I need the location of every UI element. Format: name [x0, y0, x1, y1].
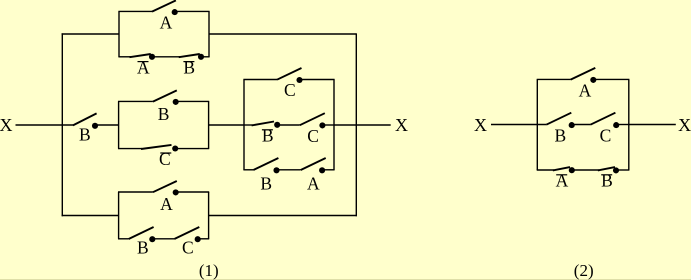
label B-bar: [601, 170, 613, 190]
wire box1 top right: [175, 10, 210, 12]
svg-text:B: B: [601, 170, 613, 190]
wire top branch exit: [209, 33, 356, 35]
box1 right edge: [208, 11, 210, 56]
switch B-bar (box5 bottom, closed): [598, 167, 619, 173]
switch C (box5 middle): [590, 113, 619, 128]
label C-bar: [159, 149, 171, 169]
wire box5 top right: [593, 78, 629, 80]
wire box3 middle right: [322, 124, 334, 126]
svg-text:B: B: [137, 238, 149, 258]
svg-text:B: B: [183, 57, 195, 77]
svg-text:B: B: [262, 126, 274, 146]
wire top branch: [62, 33, 119, 35]
svg-text:C: C: [159, 149, 171, 169]
wire output circuit 2: [629, 124, 676, 126]
svg-text:X: X: [395, 115, 408, 135]
switch C-bar (box2 bottom, closed): [141, 145, 178, 152]
wire box1 bottom middle: [152, 56, 180, 58]
switch C (box4 bottom): [174, 227, 200, 242]
svg-text:C: C: [307, 126, 319, 146]
box3 right edge: [333, 80, 335, 170]
svg-text:C: C: [284, 80, 296, 100]
box2 right edge: [208, 101, 210, 148]
wire box3 middle: [277, 124, 300, 126]
wire box4 bottom right: [198, 238, 210, 240]
wire box1 bottom left: [118, 56, 131, 58]
wire box3 bottom middle: [277, 169, 301, 171]
wire box2 bottom left: [118, 148, 142, 150]
wire box3 top right: [300, 79, 335, 81]
wire box4 top left: [118, 191, 153, 193]
right junction rail: [355, 33, 357, 216]
bottom edge line: [0, 279, 691, 280]
wire box2 top right: [176, 100, 210, 102]
switch B (box2 top): [153, 90, 179, 105]
label A-bar: [137, 57, 150, 77]
wire input circuit 2: [491, 124, 546, 126]
wire box4 top right: [176, 191, 210, 193]
wire input from X: [16, 124, 74, 126]
svg-text:B: B: [79, 125, 91, 145]
wire box3 bottom left: [243, 169, 253, 171]
wire box5 bottom right: [616, 169, 629, 171]
switch C (box3 top): [277, 68, 303, 83]
wire box3 top left: [243, 79, 277, 81]
switch B-bar (box3 middle, closed): [252, 122, 281, 128]
switch A-bar (box1 bottom, closed): [130, 54, 156, 60]
svg-text:(2): (2): [574, 261, 594, 280]
switch B-bar (box1 bottom, closed): [179, 54, 204, 60]
switch B (box5 middle): [546, 113, 574, 128]
switch A (box4 top): [153, 181, 179, 195]
wire output circuit 1: [334, 124, 391, 126]
box4 right edge: [208, 192, 210, 239]
wire bottom branch: [62, 215, 119, 217]
box2 left edge: [118, 101, 120, 148]
svg-text:B: B: [555, 126, 567, 146]
svg-text:B: B: [158, 104, 170, 124]
box4 left edge: [118, 192, 120, 239]
svg-text:A: A: [160, 12, 173, 32]
label B-bar: [183, 57, 195, 77]
wire box5 middle right: [616, 124, 629, 126]
svg-text:X: X: [678, 115, 691, 135]
svg-text:C: C: [600, 126, 612, 146]
switch A (box5 top): [571, 68, 597, 83]
box1 left edge: [118, 11, 120, 56]
switch A (box1 top): [152, 0, 178, 15]
wire box3 middle left: [243, 124, 252, 126]
svg-text:A: A: [307, 173, 320, 193]
switch C (box3 middle): [300, 113, 326, 128]
wire box2 top left: [118, 100, 153, 102]
svg-text:(1): (1): [199, 261, 219, 280]
svg-text:X: X: [474, 115, 487, 135]
wire box5 bottom middle: [572, 169, 599, 171]
wire box1 bottom right: [201, 56, 210, 58]
switch B (box3 bottom): [253, 158, 279, 173]
wire bottom branch exit: [209, 215, 357, 217]
svg-text:X: X: [0, 115, 13, 135]
svg-text:B: B: [260, 173, 272, 193]
switch A (box3 bottom): [301, 158, 326, 173]
wire box4 bottom left: [118, 238, 129, 240]
svg-text:A: A: [556, 170, 569, 190]
wire box1 top left: [118, 10, 152, 12]
svg-text:A: A: [137, 57, 150, 77]
left junction rail: [61, 33, 63, 216]
svg-text:A: A: [160, 194, 173, 214]
label A-bar: [556, 170, 569, 190]
wire box5 bottom left: [537, 169, 554, 171]
svg-text:A: A: [579, 80, 592, 100]
switch B (box4 bottom): [129, 227, 156, 242]
label B-bar: [262, 126, 274, 146]
wire box2 bottom right: [175, 148, 209, 150]
wire box3 bottom right: [322, 169, 335, 171]
switch B (series, circuit 1 input): [73, 113, 98, 128]
wire to box2: [95, 124, 119, 126]
switch A-bar (box5 bottom, closed): [553, 167, 575, 173]
wire box4 bottom middle: [152, 238, 174, 240]
svg-text:C: C: [182, 238, 194, 258]
wire box5 middle: [572, 124, 591, 126]
box5 left edge: [536, 79, 538, 170]
wire box5 top left: [537, 78, 571, 80]
box3 left edge: [243, 80, 245, 170]
wire box2 to box3: [209, 124, 244, 126]
box5 right edge: [628, 79, 630, 170]
